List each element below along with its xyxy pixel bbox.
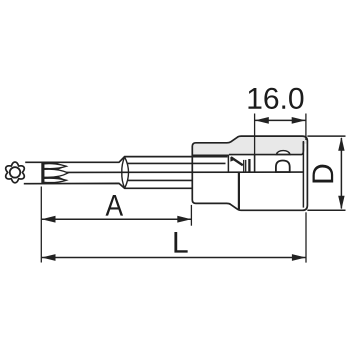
dimension D down arrow [338,196,344,210]
right end inner face line [302,141,304,208]
collar-body junction vertical [238,172,240,209]
drive hole small arch on shoulder [276,151,290,155]
torx tip flute lens bottom [44,178,67,182]
dimension D text (rotated, drawn as path) [313,165,334,183]
mouth chamfer fill [230,157,234,162]
dimension D line [340,138,342,209]
dimension A text [106,195,124,216]
hex lower inner line [127,179,191,181]
hex left end chamfer ellipse arc [125,157,129,188]
hex left end bracket arc [122,157,125,188]
dimension A right extension [190,205,192,226]
dimension D top extension [307,135,345,137]
bore top line inside mouth [193,154,229,156]
dimension L left extension [40,187,42,263]
projection+top outline of bit: tangent line, tip top, shaft top, hex chamfer, hex top [25,157,227,163]
torx end view star [6,162,25,183]
retaining bar line 2 [245,160,247,172]
dimension A left arrow [42,216,56,223]
dimension A line [42,218,192,220]
dimension 16.0 line [255,119,306,121]
dimension D bottom extension [307,209,345,211]
dimension D up arrow [338,137,344,151]
dimension A right arrow [177,216,191,223]
torx tip flute lens middle [44,169,68,177]
hex upper inner line [127,162,225,164]
dimension 16.0 left arrow [255,117,269,124]
retaining bar line 1 [243,160,245,172]
dimension L text [174,232,187,253]
shoulder line of drive hole [229,142,303,155]
dimension 16.0 text [248,88,303,109]
dimension L right extension [305,212,307,262]
mouth chamfer diagonal [231,157,243,165]
dimension L left arrow [42,254,56,261]
torx tip flute lens top [44,164,67,169]
dimension 16.0 right extension [305,114,307,141]
axis / flute middle line [67,171,304,173]
drive hole big arch [276,161,290,173]
dimension 16.0 left extension [254,114,256,155]
torx end view inner circle [10,167,21,178]
dimension 16.0 right arrow [292,117,306,124]
retaining bar thick [248,159,250,172]
dimension L line [42,257,306,259]
bottom outline of bit [24,183,192,188]
socket gray silhouette [192,136,307,155]
torx tip dark base [41,162,68,183]
drive hole left edge [254,155,256,172]
mouth bore end vertical [227,156,229,172]
dimension L right arrow [292,254,306,261]
socket body outline [192,136,307,210]
